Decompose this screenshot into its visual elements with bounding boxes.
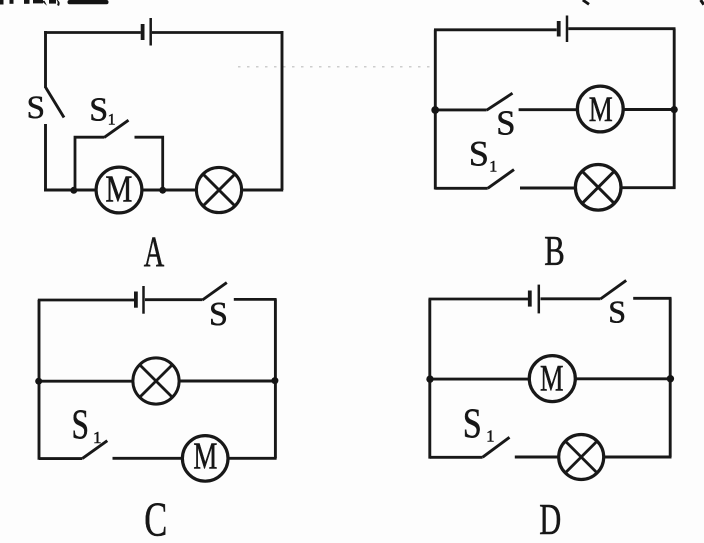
wire B lamp to right vertical — [622, 186, 676, 189]
wire B top-right horizontal — [568, 27, 675, 30]
wire D right vertical — [669, 298, 672, 457]
svg-text:S: S — [608, 294, 626, 330]
svg-text:B: B — [544, 229, 565, 275]
cropped parenthesis mark far top-right — [701, 0, 704, 5]
wire A top-left horizontal — [44, 31, 141, 34]
battery cell C: long thin plate — [142, 286, 145, 314]
node dot A left — [70, 187, 77, 194]
wire B right vertical — [673, 29, 676, 189]
wire D top-left horizontal — [429, 298, 529, 301]
switch S blade (circuit D) — [600, 280, 626, 299]
wire B bottom branch left segment — [435, 187, 487, 190]
svg-text:1: 1 — [489, 158, 497, 175]
switch S blade (circuit A) — [46, 88, 64, 118]
svg-text:M: M — [540, 358, 564, 399]
battery cell A: short thick plate — [141, 24, 145, 40]
svg-text:S: S — [72, 401, 90, 448]
svg-text:1: 1 — [486, 426, 494, 445]
node dot C left — [35, 378, 42, 385]
switch S blade (circuit B) — [487, 93, 513, 110]
cropped parenthesis mark top-right — [583, 0, 589, 4]
wire C battery to switch — [145, 298, 202, 301]
S1 bypass branch right wire + vertical (circuit A) — [135, 137, 163, 190]
wire D middle branch left segment — [430, 378, 530, 381]
wire C middle branch right segment — [180, 380, 277, 383]
svg-text:S: S — [496, 104, 515, 142]
wire C top-left horizontal — [38, 299, 134, 302]
lamp L1 circle (circuit A) — [196, 167, 241, 212]
wire A left vertical lower — [44, 124, 47, 191]
switch S1 blade (circuit D) — [483, 437, 510, 457]
svg-text:1: 1 — [108, 111, 116, 128]
wire A motor to lamp — [142, 189, 197, 192]
wire B middle branch to motor — [519, 108, 579, 111]
battery cell D: short thick plate — [528, 291, 532, 307]
lamp L4 circle (circuit D) — [559, 435, 604, 480]
lamp L1 cross (circuit A) — [203, 174, 235, 206]
wire B top-left horizontal — [434, 28, 557, 31]
node dot A right — [159, 187, 166, 194]
svg-text:A: A — [144, 229, 165, 276]
lamp L4 cross (circuit D) — [565, 441, 597, 473]
motor U2 circle (circuit B) — [577, 86, 623, 132]
wire D lamp to right vertical — [604, 456, 672, 459]
wire D battery to switch — [541, 297, 601, 300]
wire C switch to motor — [113, 457, 183, 460]
cropped Chinese text remnant top-left — [0, 0, 109, 6]
switch S1 blade (circuit C) — [82, 441, 107, 459]
wire C motor to right vertical — [228, 457, 277, 460]
wire B motor to right vertical — [623, 108, 676, 111]
wire D bottom branch left segment — [430, 456, 483, 459]
wire A top-right horizontal — [152, 31, 283, 34]
wire A left vertical upper — [44, 31, 47, 88]
lamp L2 circle (circuit B) — [575, 165, 621, 211]
svg-text:S: S — [27, 90, 45, 126]
node dot D right — [667, 375, 674, 382]
svg-text:S: S — [89, 92, 108, 129]
battery cell D: long thin plate — [538, 285, 541, 314]
wire D left vertical — [428, 299, 431, 459]
node dot D left — [426, 375, 433, 382]
lamp L2 cross (circuit B) — [582, 171, 614, 203]
S1 bypass branch left vertical + top wire (circuit A) — [75, 137, 104, 190]
switch S1 blade (circuit B) — [488, 170, 514, 189]
svg-text:M: M — [589, 89, 613, 129]
wire B bottom branch to lamp — [520, 187, 575, 190]
svg-text:M: M — [193, 436, 217, 478]
motor U4 circle (circuit D) — [529, 356, 575, 402]
wire B left vertical — [434, 30, 437, 190]
motor U3 circle (circuit C) — [182, 436, 228, 482]
motor U1 circle (circuit A) — [96, 167, 142, 213]
wire A bottom left segment — [44, 189, 97, 192]
wire A right vertical — [281, 31, 284, 190]
battery cell B: long thin plate — [566, 16, 569, 43]
svg-text:1: 1 — [93, 428, 102, 447]
node dot C right — [271, 377, 278, 384]
svg-text:S: S — [469, 134, 489, 174]
wire D middle branch right segment — [576, 377, 672, 380]
node dot B left — [431, 106, 439, 114]
svg-text:S: S — [209, 296, 228, 333]
switch S1 blade (circuit A) — [104, 120, 129, 137]
svg-text:D: D — [539, 495, 561, 543]
lamp L3 circle (circuit C) — [133, 358, 179, 404]
wire C right vertical — [274, 299, 277, 458]
wire A lamp to right vertical — [242, 189, 284, 192]
svg-text:M: M — [105, 168, 132, 210]
wire C bottom branch left segment — [39, 457, 82, 460]
lamp L3 cross (circuit C) — [140, 365, 173, 398]
wire D switch to right corner — [633, 297, 671, 300]
svg-text:C: C — [144, 491, 167, 543]
wire C middle branch left segment — [39, 380, 134, 383]
node dot B right — [671, 106, 678, 113]
wire C switch to right corner — [234, 298, 277, 301]
switch S blade (circuit C) — [202, 283, 226, 300]
wire C left vertical — [38, 300, 41, 460]
wire B middle branch left segment — [435, 108, 486, 111]
svg-text:S: S — [463, 401, 482, 447]
battery cell A: long thin plate — [149, 18, 152, 46]
faint scan artifact dotted line — [238, 66, 430, 68]
wire D switch to lamp — [515, 456, 559, 459]
battery cell C: short thick plate — [134, 292, 138, 308]
battery cell B: short thick plate — [557, 21, 561, 37]
